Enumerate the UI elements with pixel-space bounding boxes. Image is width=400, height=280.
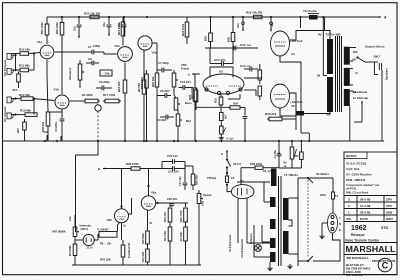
wire plate rail V3 — [205, 47, 258, 49]
resistor R63 22k — [191, 174, 195, 185]
mains connector — [328, 213, 338, 233]
speaker bracket — [373, 62, 375, 75]
arrow node b — [192, 73, 200, 75]
wire V1a plate out — [55, 51, 86, 53]
wire T1 primary bottom — [289, 253, 299, 255]
tremolo ground rail — [72, 264, 201, 266]
resistor R37 grid — [258, 86, 262, 96]
black resistor R47 — [296, 111, 304, 116]
wire grid drop V6a — [148, 169, 150, 196]
wire V4 screens — [280, 56, 301, 130]
title block outline — [344, 152, 397, 275]
wire T1 right bus — [297, 178, 299, 266]
T1 secondary winding a — [271, 169, 277, 187]
wire to V1a grid — [15, 55, 17, 70]
wire heater network bottom — [279, 167, 301, 169]
wire V4 plate to T2 — [290, 31, 331, 41]
switch output select — [357, 57, 359, 59]
wire screen bus down — [300, 130, 302, 133]
wire V1a cathode down — [46, 60, 48, 75]
transformer T2 primary winding lower — [327, 77, 333, 112]
capacitor presence feed — [244, 108, 246, 116]
jack J2 — [7, 69, 11, 75]
indicator lamp — [255, 245, 262, 252]
neon lamp — [83, 234, 94, 245]
wire V3 to V4 grid — [244, 77, 262, 79]
wire V5 plate to T2 — [290, 93, 331, 114]
box 10k — [100, 70, 112, 76]
node A arrow power — [226, 150, 228, 158]
wire caps to V2a grid — [99, 51, 104, 53]
wire V6a plate right — [156, 202, 172, 204]
wire neon — [75, 239, 83, 241]
wire from ground rail to tremolo — [76, 141, 99, 232]
wire T2 center tap — [322, 17, 324, 76]
wire R69 to C1 node — [266, 167, 279, 169]
transformer T2 secondary winding 3 — [344, 89, 350, 106]
speaker jack contacts — [378, 63, 380, 70]
T1 primary tap — [289, 220, 293, 226]
switch S2 HT — [226, 159, 228, 161]
T1 secondary winding d — [270, 238, 276, 248]
wire V7 filament legs — [237, 198, 239, 243]
resistor R50 grid — [258, 70, 262, 80]
wire V6b plate up — [129, 198, 132, 214]
wire mains return — [298, 261, 308, 266]
arrow node B — [103, 168, 112, 170]
choke core line — [308, 13, 319, 15]
wire switch to bracket — [366, 61, 374, 63]
wire grid drop V6b — [121, 169, 123, 209]
wire V5 screens — [280, 108, 296, 116]
wire V1b out — [70, 100, 83, 102]
revision table — [344, 195, 397, 197]
wire mains live — [332, 178, 334, 192]
humdinger pot VR8 — [291, 141, 293, 147]
wire R34 to cathode bus — [196, 106, 228, 108]
wire osc node — [161, 162, 163, 169]
T1 secondary winding c — [270, 219, 276, 229]
wire mains top — [298, 177, 333, 179]
wire HT winding to V7 — [237, 181, 270, 183]
wire heater winding — [262, 241, 270, 243]
wire secondary taps — [350, 47, 356, 49]
transformer T2 secondary winding 1 — [344, 47, 350, 65]
jack J1 — [7, 54, 11, 60]
ground stub 1 — [46, 135, 48, 141]
ground near core — [289, 264, 291, 266]
wire secondary bottom — [349, 106, 351, 141]
wire filament bus — [253, 225, 255, 257]
notes header box — [344, 152, 367, 159]
wire choke drop right — [324, 17, 326, 30]
wire V2b out — [153, 42, 157, 44]
feedback arrow — [354, 121, 362, 123]
resistor R9 grid ref — [17, 74, 21, 82]
arrow to node A — [370, 16, 381, 18]
node A rail — [47, 16, 378, 18]
ground stub 2 — [60, 136, 62, 141]
mains switch dashed link — [307, 180, 309, 258]
T1 secondary winding e — [270, 252, 276, 262]
jack J4 — [7, 113, 11, 119]
chassis ground rail — [3, 140, 384, 142]
ground T1 — [269, 262, 271, 266]
wire speed down — [198, 212, 200, 265]
presence pot VR9 — [220, 126, 224, 134]
wire to V1b grid — [33, 99, 35, 115]
T1 secondary winding b — [270, 197, 276, 207]
junction dots on rail — [61, 16, 63, 18]
transformer T2 core — [335, 36, 337, 112]
wire T1 primary top — [289, 197, 299, 199]
wire LDR to V6b — [117, 225, 119, 232]
jack J3 — [7, 97, 11, 103]
wire osc ladder top — [172, 202, 188, 204]
resistor R49 — [300, 141, 302, 152]
ground V3 cathode — [220, 136, 222, 138]
fuse F2 — [226, 172, 228, 174]
pot wiper circle — [95, 105, 101, 111]
wire choke drop left — [300, 17, 302, 28]
T1 core — [278, 176, 280, 266]
junction dots on ground rail — [44, 140, 46, 142]
T1 primary winding upper — [283, 198, 289, 220]
copyright circle — [378, 258, 392, 272]
choke T3 winding — [309, 15, 318, 20]
transformer T2 secondary winding 2 — [344, 68, 350, 86]
wire V3 to V5 grid — [244, 89, 256, 91]
wire mains neutral — [313, 233, 340, 261]
marshall logo box — [344, 242, 397, 244]
T1 primary winding lower — [283, 231, 289, 254]
transformer T2 primary winding upper — [327, 39, 333, 74]
switch S1 lower pole — [307, 260, 309, 262]
wire V1b plate — [61, 35, 63, 94]
speaker return wire — [381, 70, 383, 141]
ground mains earth — [322, 222, 328, 224]
